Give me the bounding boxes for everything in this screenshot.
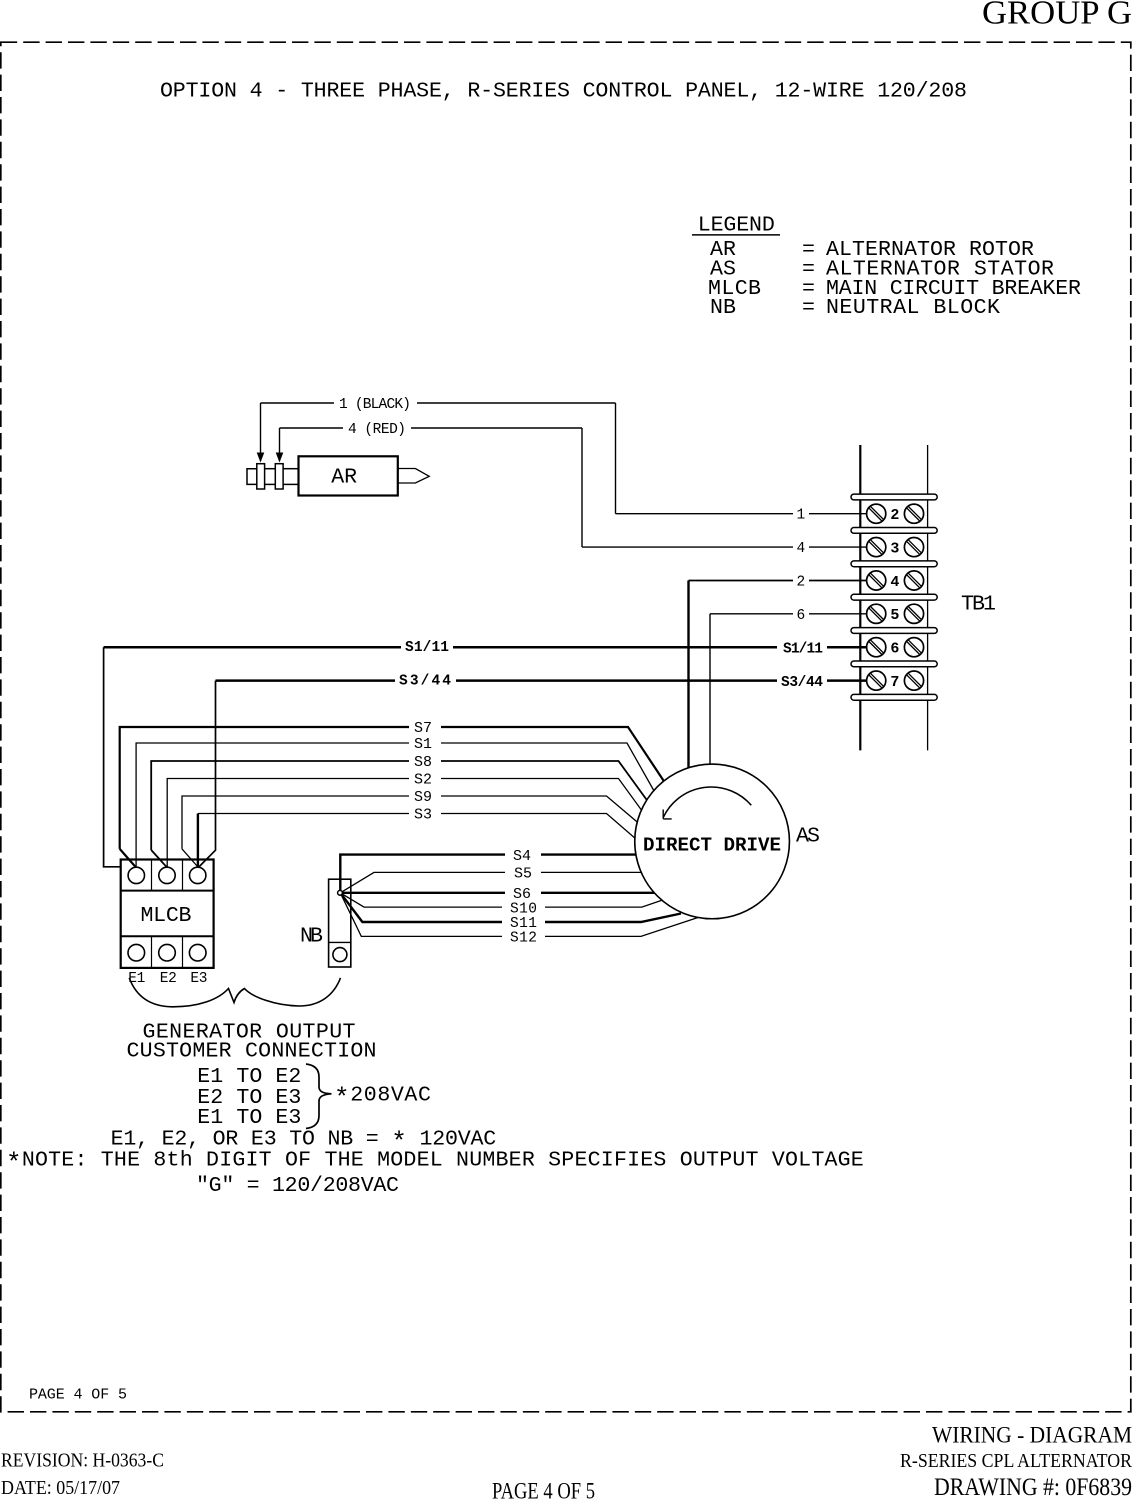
TB1 separator bar 6 [851,661,937,667]
MLCB output terminal E1 [128,944,145,961]
TB1 terminal 3 right screw [904,538,923,557]
TB1 terminal 5 right screw [904,604,923,623]
svg-text:E1: E1 [128,971,145,987]
wire 4 (RED) vertical with arrow into slip ring 2 [279,428,281,461]
svg-text:2: 2 [890,507,899,524]
TB1 terminal 6 right screw [904,638,923,657]
MLCB top terminal 2 [159,867,175,883]
TB1 separator bar 3 [851,561,937,567]
main circuit breaker MLCB outline [121,860,214,968]
svg-text:NB: NB [300,924,323,948]
NB terminal circle [333,948,347,962]
svg-text:S7: S7 [414,720,432,737]
MLCB bottom strip divider [121,935,214,937]
alternator rotor AR body [299,456,398,495]
svg-text:DATE: 05/17/07: DATE: 05/17/07 [1,1477,120,1499]
TB1 separator bar 4 [851,594,937,600]
svg-text:2: 2 [797,575,806,591]
wire 6 vertical to AS [709,614,711,764]
NB junction node [338,890,343,895]
svg-text:S3: S3 [414,807,432,824]
TB1 right rail [927,445,929,750]
TB1 terminal 5 left screw [867,604,886,623]
svg-text:DIRECT DRIVE: DIRECT DRIVE [643,835,781,857]
wire S1/11 vertical to MLCB E1 terminal [104,647,121,867]
TB1 separator bar 5 [851,628,937,634]
svg-text:CUSTOMER CONNECTION: CUSTOMER CONNECTION [127,1040,377,1064]
MLCB output terminal E3 [189,944,206,961]
svg-text:TB1: TB1 [961,593,996,617]
wire S9 [182,796,637,849]
wire 4 drop to TB1 row 3 [581,428,583,547]
wire S10 [340,893,662,907]
generator output grouping brace [129,978,340,1007]
TB1 terminal 6 left screw [867,638,886,657]
svg-text:"G" = 120/208VAC: "G" = 120/208VAC [196,1174,399,1198]
TB1 terminal 2 right screw [904,504,923,523]
svg-text:AR: AR [331,466,357,490]
wire S5 [340,872,641,892]
svg-text:R-SERIES CPL ALTERNATOR: R-SERIES CPL ALTERNATOR [900,1450,1132,1472]
MLCB bottom cell walls [151,936,153,968]
svg-text:6: 6 [890,641,899,658]
svg-text:S10: S10 [510,901,537,917]
MLCB top terminal 3 [190,867,206,883]
wire 4 horizontal segments [280,427,344,429]
wire 1 (BLACK) vertical with arrow into slip ring 1 [260,403,262,461]
TB1 separator bar 2 [851,528,937,534]
svg-text:1: 1 [797,508,806,524]
svg-text:AS: AS [796,824,820,848]
svg-text:S8: S8 [414,754,432,771]
svg-text:5: 5 [890,607,899,624]
TB1 left rail [859,445,861,750]
AR shaft left stub [247,469,257,485]
AR slip ring 2 [275,464,283,489]
svg-text:E3: E3 [190,971,207,987]
TB1 separator bar 7 [851,694,937,700]
wire S12 [340,893,698,937]
svg-text:S3/44: S3/44 [781,675,823,691]
TB1 terminal 4 right screw [904,571,923,590]
svg-text:S9: S9 [414,789,432,806]
NB cell divider [329,941,351,943]
alternator stator AS circle [635,764,790,919]
MLCB output terminal E2 [159,944,176,961]
svg-text:E1 TO E3: E1 TO E3 [197,1106,301,1130]
svg-text:S5: S5 [514,866,532,883]
svg-text:S1: S1 [414,736,432,753]
AR shaft pointed tip [398,469,429,484]
svg-text:LEGEND: LEGEND [698,214,775,238]
svg-text:MLCB: MLCB [141,904,192,928]
MLCB top terminal 1 [128,867,144,883]
svg-text:3: 3 [890,540,899,557]
svg-text:NEUTRAL BLOCK: NEUTRAL BLOCK [826,296,1000,320]
wire S6 [340,892,654,894]
wire 2 TB1 row4 horizontal [689,580,794,582]
wire S3 [198,814,635,839]
footer [1,1423,1132,1502]
MLCB top strip divider [121,890,214,892]
svg-text:S1/11: S1/11 [783,641,823,657]
svg-text:S2: S2 [414,772,432,789]
TB1 terminal 7 left screw [867,671,886,690]
TB1 separator bar 1 [851,494,937,500]
wire S7 [120,727,664,867]
wire S2 [167,779,641,868]
AR shaft segments [265,468,276,470]
wire S3/44 horizontal [216,679,867,682]
svg-text:PAGE 4 OF 5: PAGE 4 OF 5 [29,1387,127,1404]
svg-text:PAGE 4 OF 5: PAGE 4 OF 5 [492,1479,595,1502]
TB1 terminal 4 left screw [867,571,886,590]
wire 2 vertical to AS [687,581,689,768]
wire S1/11 horizontal [104,646,867,649]
rotation arrowhead [663,810,672,819]
TB1 terminal 3 left screw [867,538,886,557]
svg-text:1 (BLACK): 1 (BLACK) [339,397,411,413]
rotation arrow arc [663,787,751,818]
svg-text:DRAWING #: 0F6839: DRAWING #: 0F6839 [934,1472,1132,1501]
brace for 208VAC [306,1064,332,1129]
svg-text:6: 6 [797,608,806,624]
svg-text:E2: E2 [160,971,177,987]
neutral block NB outline [329,879,351,967]
arrowhead wire 4 [276,453,284,463]
wire S4 [340,855,636,893]
TB1 terminal 7 right screw [904,671,923,690]
wire S3/44 vertical and diagonal to MLCB terminal 3 [198,681,215,868]
wire 1 horizontal segments [261,402,335,404]
wire S1 [136,743,654,867]
bottom text block [6,1020,864,1198]
wire S8 [151,761,647,850]
svg-text:S12: S12 [510,931,537,947]
svg-text:S1/11: S1/11 [405,640,449,656]
wire S11 [340,893,681,922]
wire S3 vertical into MLCB terminal 3 [197,814,199,868]
wire 6 TB1 row5 horizontal [710,613,793,615]
svg-text:WIRING - DIAGRAM: WIRING - DIAGRAM [932,1423,1132,1448]
svg-text:GROUP G: GROUP G [982,0,1132,32]
svg-text:7: 7 [890,674,899,691]
svg-text:OPTION 4 - THREE PHASE, R-SERI: OPTION 4 - THREE PHASE, R-SERIES CONTROL… [160,80,967,104]
MLCB top cell walls [151,860,153,891]
svg-text:4 (RED): 4 (RED) [348,422,406,438]
svg-text:4: 4 [797,541,806,557]
svg-text:=: = [802,296,815,320]
LEGEND [692,214,1081,321]
TB1 terminal 2 left screw [867,504,886,523]
svg-text:S4: S4 [513,848,531,865]
wire 1 drop to TB1 row 2 [615,403,617,514]
arrowhead wire 1 [257,453,265,463]
svg-text:4: 4 [890,574,899,591]
svg-text:S3/44: S3/44 [399,673,451,689]
svg-text:REVISION: H-0363-C: REVISION: H-0363-C [1,1450,164,1472]
AR slip ring 1 [257,464,265,489]
svg-text:NB: NB [710,296,736,320]
